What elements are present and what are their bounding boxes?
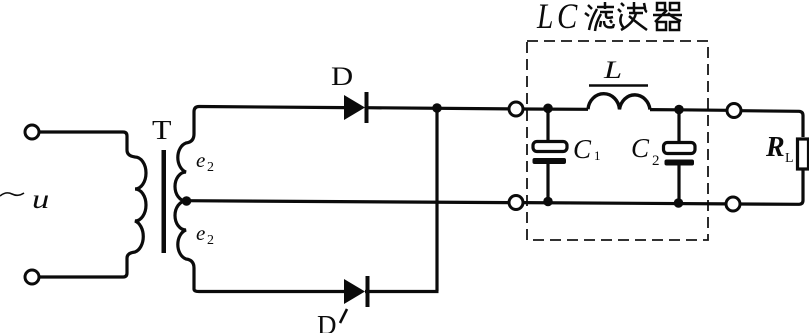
label LC filter title: [536, 0, 682, 37]
terminal input top: [25, 125, 39, 139]
wire vertical junction to bottom rail: [435, 108, 438, 291]
svg-text:2: 2: [652, 153, 660, 169]
label R_L: [765, 132, 794, 166]
svg-text:e: e: [196, 148, 205, 172]
transformer core: [162, 150, 167, 253]
transformer secondary winding: [175, 112, 194, 289]
terminal filter output bottom: [726, 197, 740, 211]
wire filter top rail to output terminal: [679, 108, 727, 112]
svg-text:D: D: [317, 310, 337, 333]
node C1 top: [543, 104, 553, 114]
hanzi lv (filter): [585, 2, 614, 31]
label D': [317, 309, 347, 333]
svg-text:C: C: [631, 133, 650, 163]
svg-text:1: 1: [594, 148, 601, 163]
node C1 bottom: [543, 197, 553, 207]
svg-text:R: R: [765, 132, 785, 163]
label D: [331, 63, 353, 91]
label T: [152, 116, 171, 145]
inductor L: [588, 94, 650, 110]
svg-text:e: e: [196, 221, 205, 245]
node C2 top: [674, 105, 684, 115]
label C2: [631, 133, 660, 169]
wire filter top rail: [523, 107, 588, 111]
capacitor C2: [664, 109, 696, 203]
svg-text:L: L: [785, 151, 794, 166]
label e2 bottom: [196, 221, 214, 248]
svg-text:D: D: [331, 63, 353, 91]
terminal filter input bottom: [509, 196, 523, 210]
wire bottom rail diode D' to junction column: [365, 290, 439, 293]
svg-text:2: 2: [207, 160, 214, 175]
wire middle rail center tap to filter: [186, 201, 509, 203]
label C1: [573, 134, 601, 164]
label e2 top: [196, 148, 214, 175]
wire output top to load: [741, 111, 803, 137]
wire bottom-left: [39, 258, 127, 277]
wire filter bottom rail: [523, 203, 726, 204]
hanzi qi (device): [653, 3, 682, 30]
svg-text:u: u: [32, 184, 49, 214]
wire output bottom to load: [740, 171, 803, 205]
transformer T primary winding: [127, 150, 146, 258]
dashed box LC filter: [527, 41, 708, 240]
svg-text:L: L: [603, 56, 622, 84]
diode D': [344, 276, 370, 307]
terminal input bottom: [25, 270, 39, 284]
wire bottom rail secondary to diode D': [194, 289, 345, 292]
hanzi bo (wave): [618, 2, 647, 30]
node center tap dot: [182, 196, 192, 206]
svg-text:C: C: [573, 134, 592, 164]
label ~u source: [0, 184, 49, 214]
svg-text:T: T: [152, 116, 171, 145]
wire top rail diode D to left terminal of filter: [365, 108, 509, 109]
terminal filter input top: [509, 102, 523, 116]
capacitor C1: [533, 108, 568, 202]
wire top rail from secondary to diode D: [194, 107, 345, 113]
wire inductor to C2 node: [650, 108, 679, 111]
svg-text:L: L: [536, 0, 553, 37]
terminal filter output top: [727, 104, 741, 118]
wire top-left: [39, 132, 127, 150]
node junction diode outputs: [432, 103, 442, 113]
resistor R_L: [798, 139, 809, 169]
svg-text:C: C: [557, 0, 578, 37]
node C2 bottom: [674, 198, 684, 208]
label L with underline: [589, 56, 648, 85]
diode D: [344, 92, 369, 123]
svg-text:2: 2: [207, 233, 214, 248]
